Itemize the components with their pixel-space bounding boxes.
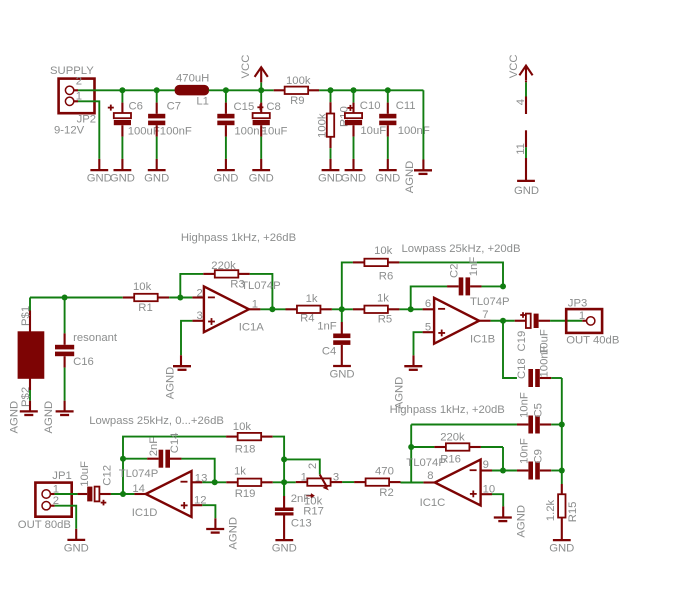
svg-text:SUPPLY: SUPPLY <box>50 65 94 77</box>
ground GND (pin11) <box>514 181 539 197</box>
svg-text:10uF: 10uF <box>262 125 288 137</box>
svg-text:JP2: JP2 <box>77 113 96 125</box>
potentiometer R17 10k <box>284 459 342 517</box>
capacitor C8 10uF <box>253 90 288 170</box>
svg-text:R15: R15 <box>567 502 579 523</box>
analog ground AGND (C16) <box>43 401 74 434</box>
svg-text:1: 1 <box>301 471 307 483</box>
wire IC1C output <box>401 481 435 483</box>
capacitor C11 100nF <box>379 90 430 170</box>
svg-text:IC1C: IC1C <box>420 497 446 509</box>
wire JP1 pin2 to GND <box>50 506 76 540</box>
svg-text:6: 6 <box>425 298 431 310</box>
svg-text:R4: R4 <box>300 313 314 325</box>
ground GND (C8) <box>249 170 274 185</box>
resistor R6 10k <box>353 245 400 282</box>
svg-text:P$1: P$1 <box>20 306 32 326</box>
power VCC symbol <box>240 55 268 91</box>
wire feedback up to R3 <box>180 274 203 298</box>
capacitor C7 100nF <box>148 90 192 170</box>
capacitor C16 (resonant) <box>55 298 118 412</box>
node junction main line <box>281 479 287 485</box>
op-amp IC1C TL074P <box>406 457 495 509</box>
svg-text:C19: C19 <box>516 331 528 352</box>
analog ground AGND (IC1C pin10) <box>494 505 528 538</box>
node junction C9/right <box>559 468 565 474</box>
resistor R16 220k <box>411 432 503 466</box>
svg-text:4: 4 <box>515 99 527 105</box>
op-amp IC1A TL074P <box>197 280 281 334</box>
svg-text:3: 3 <box>333 471 339 483</box>
svg-text:GND: GND <box>549 543 574 555</box>
svg-text:C11: C11 <box>396 100 416 112</box>
wire IC1C pin10 to AGND <box>481 494 504 517</box>
node junction C5/right <box>559 422 565 428</box>
svg-text:GND: GND <box>144 173 169 185</box>
svg-text:P$2: P$2 <box>20 387 32 407</box>
svg-text:TL074P: TL074P <box>470 296 510 308</box>
node junction R1/R3 <box>177 295 183 301</box>
wire rail corner down to AGND <box>422 90 424 170</box>
wire R1 to IC1A pin2 <box>169 297 204 299</box>
svg-text:R18: R18 <box>235 443 256 455</box>
svg-text:GND: GND <box>514 185 539 197</box>
capacitor C9 10nF <box>517 438 562 479</box>
resistor R3 220k <box>203 260 250 290</box>
resistor R10 100k <box>316 90 350 170</box>
wire IC1C pin9 <box>481 469 517 471</box>
capacitor C13 2nF <box>275 482 312 540</box>
wire IC1B output <box>479 320 515 322</box>
svg-text:9: 9 <box>483 459 489 471</box>
svg-text:1nF: 1nF <box>468 257 480 277</box>
capacitor C12 10uF <box>78 461 135 505</box>
node junction C2/out <box>500 283 506 289</box>
svg-text:Highpass 1kHz, +26dB: Highpass 1kHz, +26dB <box>181 232 296 244</box>
node junction C11 <box>385 87 391 93</box>
node junction IC1D out <box>120 491 126 497</box>
connector JP2 (SUPPLY) <box>50 65 96 137</box>
wire JP2 pin1 to GND <box>74 101 100 170</box>
wire rail L1-R9 <box>209 89 274 91</box>
svg-text:R17: R17 <box>303 506 324 518</box>
svg-text:100nF: 100nF <box>160 125 192 137</box>
svg-text:AGND: AGND <box>9 401 21 434</box>
wire R18 to pot column <box>273 437 284 496</box>
svg-text:GND: GND <box>213 173 238 185</box>
svg-text:R19: R19 <box>235 488 256 500</box>
svg-text:1nF: 1nF <box>317 320 337 332</box>
ground GND (R15) <box>549 540 574 555</box>
node junction C10 <box>351 87 357 93</box>
title Highpass 1kHz +26dB <box>181 232 296 244</box>
wire IC1D pin13 <box>192 481 227 483</box>
svg-text:GND: GND <box>318 173 343 185</box>
svg-text:GND: GND <box>329 369 354 381</box>
ground GND (C6) <box>110 170 135 185</box>
wire R3 to output node <box>250 274 273 309</box>
svg-text:C2: C2 <box>448 264 460 278</box>
svg-text:GND: GND <box>249 173 274 185</box>
svg-text:AGND: AGND <box>43 401 55 434</box>
wire C18 down right chain <box>561 378 563 471</box>
svg-text:2: 2 <box>307 463 319 469</box>
svg-text:1k: 1k <box>377 292 389 304</box>
analog ground AGND (IC1D pin12) <box>206 517 240 550</box>
wire R5 to IC1B pin6 <box>399 308 434 310</box>
capacitor C6 100uF <box>108 90 160 170</box>
node junction IC1B out <box>500 318 506 324</box>
svg-text:resonant: resonant <box>73 332 118 344</box>
svg-text:OUT 40dB: OUT 40dB <box>566 335 619 347</box>
svg-text:7: 7 <box>482 309 488 321</box>
node junction C14 left <box>120 456 126 462</box>
title Lowpass 25kHz 0..+26dB <box>89 415 224 427</box>
svg-text:2nF: 2nF <box>291 493 311 505</box>
op-amp IC1B TL074P <box>425 296 510 345</box>
svg-text:100k: 100k <box>316 113 328 138</box>
resistor R18 10k <box>226 421 273 455</box>
svg-text:C6: C6 <box>129 100 143 112</box>
capacitor C15 100nF <box>217 90 266 170</box>
svg-text:GND: GND <box>87 173 112 185</box>
svg-text:10nF: 10nF <box>518 438 530 464</box>
ground GND (JP2) <box>87 170 112 185</box>
svg-text:220k: 220k <box>211 260 236 272</box>
svg-text:C7: C7 <box>167 100 181 112</box>
title Lowpass 25kHz +20dB <box>402 243 521 255</box>
wire IC1A pin3 to AGND <box>181 321 204 366</box>
ground GND (C13) <box>272 540 297 555</box>
analog ground AGND (PS) <box>9 401 38 434</box>
svg-text:GND: GND <box>272 543 297 555</box>
wire R4 to R5 <box>332 308 353 310</box>
wire JP1 pin1 to C12 <box>50 493 77 495</box>
svg-text:TL074P: TL074P <box>406 457 446 469</box>
svg-text:100uF: 100uF <box>128 125 160 137</box>
svg-text:IC1A: IC1A <box>239 322 265 334</box>
wire rail JP2-L1 <box>122 89 175 91</box>
node junction C7 <box>154 87 160 93</box>
wire up to C2 <box>411 286 447 309</box>
wire IC1D pin12 to AGND <box>192 505 216 529</box>
svg-text:GND: GND <box>64 542 89 554</box>
node junction pin9/C9 <box>500 468 506 474</box>
svg-text:C13: C13 <box>291 517 312 529</box>
svg-text:R1: R1 <box>138 302 152 314</box>
ground GND (C11) <box>375 170 400 185</box>
svg-text:1k: 1k <box>306 293 318 305</box>
node junction C16 <box>62 295 68 301</box>
resistor R2 470 <box>354 466 400 499</box>
svg-text:470uH: 470uH <box>176 73 209 85</box>
op-amp IC1D TL074P <box>119 468 208 519</box>
svg-text:C10: C10 <box>360 100 381 112</box>
svg-text:R2: R2 <box>379 487 393 499</box>
wire feedback vertical left <box>410 425 412 483</box>
wire IC1D output pin14 <box>134 493 145 495</box>
svg-text:10uF: 10uF <box>79 461 91 487</box>
pin 11 GND of TL074 <box>515 130 527 181</box>
wire rail R9 to right corner <box>319 89 423 91</box>
wire feedback up to R6 <box>342 262 353 309</box>
wire output down to C18 <box>503 321 517 378</box>
ground GND (C4) <box>329 366 354 381</box>
svg-text:10nF: 10nF <box>518 392 530 418</box>
svg-text:Lowpass 25kHz, +20dB: Lowpass 25kHz, +20dB <box>402 243 521 255</box>
svg-text:2: 2 <box>76 75 82 87</box>
wire JP2 pin2 to rail <box>74 89 123 91</box>
resistor R1 10k <box>123 281 169 314</box>
svg-text:C9: C9 <box>532 449 544 463</box>
svg-text:10uF: 10uF <box>360 125 386 137</box>
svg-text:100k: 100k <box>286 75 311 87</box>
resistor R4 1k <box>286 293 332 324</box>
svg-text:AGND: AGND <box>228 517 240 550</box>
svg-text:R6: R6 <box>379 271 393 283</box>
node junction wiper tap <box>281 456 287 462</box>
connector JP1 OUT 80dB <box>18 470 72 531</box>
svg-text:C16: C16 <box>73 356 94 368</box>
node junction pin13/C14 <box>212 479 218 485</box>
svg-text:L1: L1 <box>196 95 209 107</box>
svg-text:10k: 10k <box>133 281 152 293</box>
svg-text:TL074P: TL074P <box>241 280 281 292</box>
svg-text:8: 8 <box>427 470 433 482</box>
svg-text:C4: C4 <box>322 345 336 357</box>
svg-text:C18: C18 <box>516 358 528 379</box>
node junction R5/C2 <box>408 306 414 312</box>
wire R16 down to pin9 node <box>502 447 504 471</box>
svg-text:Lowpass 25kHz, 0...+26dB: Lowpass 25kHz, 0...+26dB <box>89 415 224 427</box>
svg-text:1.2k: 1.2k <box>545 499 557 521</box>
svg-text:Highpass 1kHz, +20dB: Highpass 1kHz, +20dB <box>390 404 505 416</box>
capacitor C4 1nF <box>317 309 350 366</box>
svg-text:11: 11 <box>515 143 527 155</box>
svg-text:C12: C12 <box>101 465 113 486</box>
svg-text:C5: C5 <box>532 403 544 417</box>
node junction R16 tap <box>408 444 414 450</box>
svg-text:100nF: 100nF <box>539 345 551 377</box>
ground GND (C7) <box>144 170 169 185</box>
power VCC symbol (IC supply) <box>508 54 533 80</box>
svg-text:R5: R5 <box>378 314 392 326</box>
ground GND (JP1) <box>64 540 89 555</box>
capacitor C19 10uF <box>515 312 583 355</box>
svg-text:100nF: 100nF <box>398 125 430 137</box>
capacitor C18 100nF <box>516 345 562 387</box>
ground GND (C10) <box>341 170 366 185</box>
node junction C8/VCC <box>258 87 264 93</box>
ground GND (C15) <box>213 170 238 185</box>
svg-text:GND: GND <box>341 173 366 185</box>
ground GND (R10) <box>318 170 343 185</box>
svg-text:C15: C15 <box>234 101 255 113</box>
svg-text:VCC: VCC <box>508 54 520 78</box>
svg-text:1k: 1k <box>234 466 246 478</box>
pin 4 VCC of TL074 <box>515 81 527 114</box>
svg-text:VCC: VCC <box>240 55 252 79</box>
svg-text:IC1B: IC1B <box>470 333 495 345</box>
resistor R19 1k <box>226 466 296 500</box>
wire R2 to pot <box>342 481 354 483</box>
svg-text:AGND: AGND <box>164 367 176 400</box>
wire C5 line <box>411 424 517 426</box>
node junction C15 <box>223 87 229 93</box>
inductor L1 470uH <box>175 73 209 108</box>
capacitor C5 10nF <box>517 392 562 433</box>
capacitor C14 2nF <box>123 433 215 483</box>
svg-text:2: 2 <box>197 287 203 299</box>
svg-text:C8: C8 <box>266 101 280 113</box>
svg-text:GND: GND <box>110 173 135 185</box>
wire IC1A output <box>249 308 286 310</box>
analog ground AGND (IC1A pin3) <box>164 366 191 399</box>
svg-text:2nF: 2nF <box>148 437 160 457</box>
svg-text:GND: GND <box>375 173 400 185</box>
svg-text:1: 1 <box>579 310 585 322</box>
svg-text:AGND: AGND <box>404 161 416 194</box>
svg-text:AGND: AGND <box>515 505 527 538</box>
svg-text:TL074P: TL074P <box>119 468 159 480</box>
svg-text:220k: 220k <box>440 432 465 444</box>
svg-text:10k: 10k <box>233 421 252 433</box>
wire input line <box>30 297 123 299</box>
capacitor C2 1nF <box>447 257 503 296</box>
node junction R10 <box>328 87 334 93</box>
svg-text:R9: R9 <box>290 95 304 107</box>
piezo transducer PS (resonant) <box>18 298 44 412</box>
resistor R9 100k <box>274 75 319 107</box>
node junction R4/R5/C4/R6 <box>339 306 345 312</box>
svg-text:OUT 80dB: OUT 80dB <box>18 519 71 531</box>
wire IC1B pin5 to AGND <box>414 332 435 366</box>
analog ground AGND (top rail) <box>404 161 432 194</box>
title Highpass 1kHz +20dB <box>390 404 505 416</box>
capacitor C10 10uF <box>345 90 386 170</box>
resistor R5 1k <box>353 292 400 325</box>
svg-text:C14: C14 <box>169 433 181 454</box>
connector JP3 OUT 40dB <box>566 298 619 347</box>
node junction C6 <box>119 87 125 93</box>
svg-text:JP1: JP1 <box>52 470 71 482</box>
resistor R15 1.2k <box>545 471 579 541</box>
wire feedback up from out <box>123 437 226 494</box>
node junction IC1A out <box>269 306 275 312</box>
svg-text:IC1D: IC1D <box>132 507 158 519</box>
svg-text:10k: 10k <box>374 245 393 257</box>
wire R6 to output corner <box>399 262 503 286</box>
svg-text:470: 470 <box>375 466 394 478</box>
svg-text:9-12V: 9-12V <box>54 125 85 137</box>
analog ground AGND (IC1B pin5) <box>393 366 422 409</box>
